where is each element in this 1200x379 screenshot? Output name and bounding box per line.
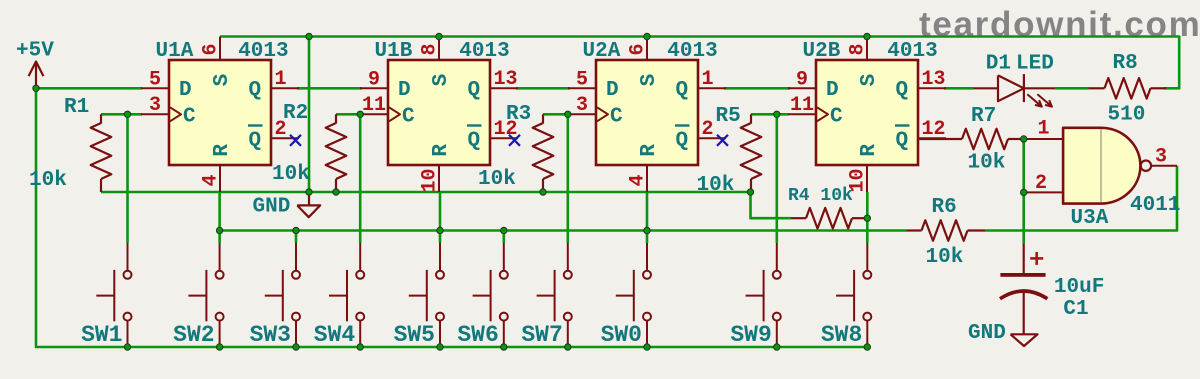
- wire SW6 riser: [502, 231, 505, 244]
- resistor R4: [791, 208, 867, 229]
- nand gate U3A: [1026, 128, 1177, 204]
- resistor R3: [533, 114, 554, 192]
- svg-text:10uF: 10uF: [1054, 276, 1104, 299]
- svg-text:U2B: U2B: [803, 40, 841, 63]
- svg-text:R5: R5: [716, 105, 741, 128]
- wire SW5 riser / U1B R: [439, 192, 442, 243]
- svg-text:R: R: [638, 144, 661, 157]
- svg-text:S: S: [858, 74, 881, 87]
- svg-text:R: R: [858, 144, 881, 157]
- label C1: [1063, 298, 1088, 321]
- svg-text:11: 11: [362, 94, 386, 117]
- svg-text:R8: R8: [1113, 52, 1138, 75]
- svg-text:R: R: [430, 144, 453, 157]
- svg-text:6: 6: [627, 43, 650, 55]
- svg-text:S: S: [638, 74, 661, 87]
- svg-text:1: 1: [1037, 118, 1049, 141]
- label R7: [971, 105, 996, 128]
- wire SW4 riser: [359, 114, 362, 243]
- svg-text:10k: 10k: [926, 246, 964, 269]
- svg-text:Q: Q: [249, 130, 262, 153]
- svg-text:8: 8: [847, 43, 870, 55]
- svg-text:Q: Q: [896, 79, 909, 102]
- wire R5 to U2B clock: [751, 113, 789, 116]
- switch SW2: [188, 243, 223, 347]
- wire U3A input tie: [1022, 139, 1025, 244]
- wire +5V left rail and switch bottom bus: [36, 88, 867, 347]
- resistor R7: [918, 129, 1024, 150]
- label R6: [932, 196, 957, 219]
- svg-text:4013: 4013: [459, 40, 509, 63]
- svg-text:R2: R2: [283, 102, 308, 125]
- svg-text:SW0: SW0: [601, 322, 642, 348]
- label SW3: [250, 322, 291, 348]
- svg-text:SW4: SW4: [314, 322, 356, 348]
- logo teardownit.com: [919, 5, 1200, 45]
- svg-text:12: 12: [922, 118, 946, 141]
- label SW0: [601, 322, 642, 348]
- ground GND1: [253, 192, 321, 219]
- label R5 value 10k: [697, 174, 735, 197]
- svg-text:2: 2: [702, 118, 714, 141]
- label U3A value 4011: [1130, 194, 1180, 217]
- svg-text:R3: R3: [506, 103, 531, 126]
- svg-text:8: 8: [419, 43, 442, 55]
- wire SW3 riser: [295, 231, 298, 244]
- label R3: [506, 103, 531, 126]
- label D1 LED: [986, 53, 1054, 76]
- D flip-flop U2A: [568, 37, 726, 193]
- label R6 value 10k: [926, 246, 964, 269]
- svg-text:GND: GND: [968, 322, 1006, 345]
- svg-text:D: D: [398, 79, 411, 102]
- svg-text:GND: GND: [253, 196, 291, 219]
- label U1A: [156, 40, 194, 63]
- svg-text:SW7: SW7: [521, 322, 562, 348]
- svg-text:3: 3: [1155, 146, 1167, 169]
- wire U1A clock node: [101, 113, 142, 116]
- switch SW5: [409, 243, 444, 347]
- switch SW7: [537, 243, 572, 347]
- label C1 value 10uF: [1054, 276, 1104, 299]
- svg-text:C: C: [830, 106, 843, 129]
- svg-text:3: 3: [149, 94, 161, 117]
- svg-text:U1B: U1B: [375, 40, 413, 63]
- svg-text:3: 3: [576, 94, 588, 117]
- label U2B: [803, 40, 841, 63]
- svg-text:LED: LED: [1016, 53, 1054, 76]
- wire SW0 riser / U2A R: [646, 192, 649, 243]
- svg-text:D: D: [606, 79, 619, 102]
- svg-text:C: C: [610, 106, 623, 129]
- svg-text:Q: Q: [896, 130, 909, 153]
- resistor R6: [907, 220, 986, 241]
- svg-text:U3A: U3A: [1071, 207, 1109, 230]
- no-connect U2A pin2: [717, 135, 728, 146]
- svg-text:SW3: SW3: [250, 322, 291, 348]
- label R8: [1113, 52, 1138, 75]
- svg-text:1: 1: [702, 68, 714, 91]
- svg-text:Q: Q: [676, 79, 689, 102]
- wire S-pin GND bus y=36: [220, 37, 1179, 89]
- svg-text:2: 2: [1035, 172, 1047, 195]
- label R1: [64, 96, 89, 119]
- svg-text:9: 9: [796, 69, 808, 92]
- svg-text:9: 9: [368, 69, 380, 92]
- wire U2B Q to LED D1: [944, 87, 974, 90]
- svg-text:Q: Q: [676, 130, 689, 153]
- wire SW1 riser: [126, 114, 129, 243]
- switch SW9: [746, 243, 781, 347]
- label U2A: [583, 40, 621, 63]
- resistor R1: [91, 114, 112, 192]
- wire GND drop x=309: [308, 37, 311, 193]
- capacitor C1: [1000, 244, 1047, 335]
- svg-text:U2A: U2A: [583, 40, 621, 63]
- svg-text:SW6: SW6: [457, 322, 498, 348]
- label SW9: [730, 322, 771, 348]
- svg-text:4013: 4013: [887, 40, 937, 63]
- wire U1A Q to U1B D: [297, 87, 362, 90]
- label R8 value 510: [1108, 104, 1146, 127]
- wire U1B Q to U2A D: [516, 87, 570, 90]
- svg-text:Q: Q: [468, 130, 481, 153]
- switch SW6: [473, 243, 508, 347]
- switch SW8: [836, 243, 871, 347]
- switch SW0: [616, 243, 651, 347]
- svg-text:SW2: SW2: [173, 322, 214, 348]
- label SW7: [521, 322, 562, 348]
- svg-text:4011: 4011: [1130, 194, 1180, 217]
- D flip-flop U2B: [788, 37, 946, 193]
- svg-text:SW1: SW1: [81, 322, 122, 348]
- svg-text:Q: Q: [468, 79, 481, 102]
- svg-text:C: C: [402, 106, 415, 129]
- wire reset bus y=230.5 left of R6: [220, 229, 907, 232]
- svg-text:R6: R6: [932, 196, 957, 219]
- label SW4: [314, 322, 356, 348]
- svg-text:R4 10k: R4 10k: [788, 186, 853, 206]
- wire SW7 riser: [566, 114, 569, 243]
- svg-text:4: 4: [200, 174, 223, 186]
- label R4 value: [788, 186, 853, 206]
- svg-text:13: 13: [494, 68, 518, 91]
- label R7 value 10k: [968, 152, 1006, 175]
- svg-text:13: 13: [922, 68, 946, 91]
- wire LED to R8: [1055, 87, 1089, 90]
- wire GND to R4: [751, 192, 792, 218]
- label R5: [716, 105, 741, 128]
- svg-text:U1A: U1A: [156, 40, 194, 63]
- D flip-flop U1B: [360, 37, 518, 193]
- switch SW1: [96, 243, 131, 347]
- svg-text:4013: 4013: [238, 40, 288, 63]
- svg-text:1: 1: [275, 68, 287, 91]
- svg-text:Q: Q: [249, 79, 262, 102]
- svg-text:SW8: SW8: [821, 322, 862, 348]
- svg-text:10k: 10k: [478, 168, 516, 191]
- svg-text:R7: R7: [971, 105, 996, 128]
- label SW6: [457, 322, 498, 348]
- label U1B: [375, 40, 413, 63]
- ground GND2: [968, 322, 1038, 346]
- svg-text:11: 11: [790, 94, 814, 117]
- label R1 value 10k: [29, 169, 67, 192]
- label U1B value 4013: [459, 40, 509, 63]
- svg-text:SW9: SW9: [730, 322, 771, 348]
- label SW8: [821, 322, 862, 348]
- resistor R2: [326, 114, 347, 192]
- svg-text:5: 5: [576, 69, 588, 92]
- label U3A pin numbers: [1035, 118, 1167, 195]
- wire SW8 riser / U2B R to R4: [866, 192, 869, 243]
- label U2B value 4013: [887, 40, 937, 63]
- wire GND bus y=192: [101, 191, 751, 194]
- svg-text:S: S: [430, 74, 453, 87]
- power +5V: [16, 40, 54, 89]
- svg-text:R: R: [211, 144, 234, 157]
- svg-text:+5V: +5V: [16, 40, 54, 63]
- svg-text:10: 10: [419, 168, 442, 192]
- svg-text:510: 510: [1108, 104, 1146, 127]
- svg-text:10k: 10k: [697, 174, 735, 197]
- D flip-flop U1A: [141, 37, 299, 193]
- svg-text:5: 5: [149, 69, 161, 92]
- svg-text:4013: 4013: [667, 40, 717, 63]
- wire +5V to U1A D: [36, 87, 142, 90]
- wire reset bus right of R6 to U3A output: [985, 166, 1177, 231]
- svg-text:10k: 10k: [29, 169, 67, 192]
- svg-text:D1: D1: [986, 53, 1011, 76]
- no-connect U1A pin2: [290, 135, 301, 146]
- svg-text:D: D: [179, 79, 192, 102]
- no-connect U1B pin12: [509, 135, 520, 146]
- label SW1: [81, 322, 122, 348]
- LED D1: [974, 74, 1056, 107]
- svg-text:R1: R1: [64, 96, 89, 119]
- label R2: [283, 102, 308, 125]
- label U1A value 4013: [238, 40, 288, 63]
- label SW2: [173, 322, 214, 348]
- wire U2A Q to U2B D: [724, 87, 790, 90]
- svg-text:C: C: [183, 106, 196, 129]
- svg-text:10k: 10k: [968, 152, 1006, 175]
- resistor R5: [741, 114, 762, 192]
- switch SW4: [329, 243, 364, 347]
- svg-text:C1: C1: [1063, 298, 1088, 321]
- label SW5: [394, 322, 435, 348]
- svg-text:10k: 10k: [272, 163, 310, 186]
- svg-text:D: D: [826, 79, 839, 102]
- svg-text:6: 6: [200, 43, 223, 55]
- label R3 value 10k: [478, 168, 516, 191]
- wire SW2 riser / U1A R: [218, 192, 221, 243]
- wire R2 to U1B clock: [336, 113, 361, 116]
- label U2A value 4013: [667, 40, 717, 63]
- svg-text:S: S: [211, 74, 234, 87]
- label U3A: [1071, 207, 1109, 230]
- wire R3 to U2A clock: [543, 113, 569, 116]
- wire SW9 riser: [775, 114, 778, 243]
- svg-text:4: 4: [627, 174, 650, 186]
- svg-text:SW5: SW5: [394, 322, 435, 348]
- switch SW3: [265, 243, 300, 347]
- resistor R8: [1089, 78, 1167, 99]
- label R2 value 10k: [272, 163, 310, 186]
